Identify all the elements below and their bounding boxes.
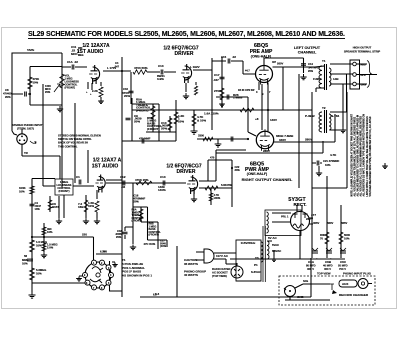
svg-text:1ST AUDIO: 1ST AUDIO [92, 164, 119, 170]
svg-text:700 V: 700 V [339, 267, 346, 271]
svg-text:6.3VAC: 6.3VAC [251, 270, 262, 274]
svg-text:(FRONT): (FRONT) [58, 189, 69, 193]
svg-text:AC SOCKET: AC SOCKET [212, 271, 228, 275]
svg-text:4700 50%: 4700 50% [134, 66, 148, 70]
svg-text:CHANNEL: CHANNEL [298, 51, 317, 55]
svg-text:(TOP VIEW): (TOP VIEW) [212, 274, 227, 278]
svg-text:(FRONT): (FRONT) [147, 127, 159, 131]
svg-text:2.0%: 2.0% [47, 246, 54, 250]
svg-text:THIS CONTROL: THIS CONTROL [58, 144, 78, 148]
svg-text:R4 60 OPS 5W: R4 60 OPS 5W [238, 89, 255, 92]
svg-text:10%: 10% [22, 262, 28, 266]
svg-text:C12: C12 [120, 175, 126, 179]
svg-text:35 WATTS: 35 WATTS [184, 262, 198, 266]
svg-text:1 MEG: 1 MEG [233, 96, 243, 100]
svg-text:5000: 5000 [344, 233, 350, 237]
svg-text:C15: C15 [221, 55, 227, 59]
svg-text:10%: 10% [47, 230, 53, 234]
svg-text:SIG: SIG [303, 279, 309, 283]
svg-text:267V: 267V [306, 217, 313, 221]
svg-text:TAPE: TAPE [27, 48, 34, 52]
svg-text:ALL RESISTORS 1/2 WATT, CARBON: ALL RESISTORS 1/2 WATT, CARBON TYPE UNLE… [363, 114, 366, 197]
svg-text:T2: T2 [322, 106, 326, 110]
svg-text:C1A: C1A [67, 60, 73, 64]
svg-text:6.3: 6.3 [155, 292, 160, 296]
svg-text:10%: 10% [178, 119, 184, 123]
svg-text:HIGH OUTPUT: HIGH OUTPUT [353, 46, 372, 50]
svg-text:10%: 10% [36, 244, 42, 248]
svg-text:SPEAKER TERMINAL STRIP: SPEAKER TERMINAL STRIP [344, 50, 380, 54]
svg-text:260V: 260V [277, 62, 283, 66]
svg-text:.047: .047 [114, 65, 120, 69]
svg-text:10%: 10% [325, 163, 331, 167]
svg-text:70: 70 [320, 237, 323, 241]
svg-text:T1: T1 [322, 59, 326, 63]
svg-text:STEREO PHONO INPUT: STEREO PHONO INPUT [12, 123, 43, 127]
svg-text:LEFT OUTPUT: LEFT OUTPUT [294, 46, 321, 50]
svg-text:220: 220 [82, 233, 87, 237]
svg-text:40 MFD: 40 MFD [323, 264, 333, 268]
svg-text:3300: 3300 [198, 134, 204, 138]
svg-text:20%: 20% [124, 94, 130, 98]
svg-text:5V AC: 5V AC [268, 236, 278, 240]
svg-text:4.7K: 4.7K [330, 153, 337, 157]
svg-text:467: 467 [272, 61, 277, 64]
svg-text:10%: 10% [36, 272, 42, 276]
svg-text:C13: C13 [160, 175, 166, 179]
svg-text:5.6K±5W: 5.6K±5W [221, 183, 233, 187]
svg-text:10%: 10% [33, 81, 39, 85]
svg-text:L 192V: L 192V [190, 65, 200, 69]
svg-text:DRIVER: DRIVER [177, 169, 196, 175]
svg-text:TR: TR [24, 151, 28, 155]
svg-text:5VAC: 5VAC [272, 243, 279, 247]
svg-text:BACK OF VOL REAR 2H: BACK OF VOL REAR 2H [58, 141, 88, 145]
svg-text:.02: .02 [121, 185, 126, 189]
svg-text:.02: .02 [74, 60, 78, 64]
svg-text:455V: 455V [313, 221, 319, 225]
svg-text:C1: C1 [76, 175, 80, 179]
svg-text:P-3952: P-3952 [313, 78, 321, 81]
svg-text:VOLTAGES MEASURED WITH VTVM, 2: VOLTAGES MEASURED WITH VTVM, 20K OHMS PE… [369, 116, 372, 196]
svg-text:470K 20%: 470K 20% [135, 178, 149, 182]
svg-text:PHONO INPUT PLUG: PHONO INPUT PLUG [343, 272, 371, 276]
svg-text:& 10%: & 10% [197, 119, 206, 123]
svg-text:16B: 16B [78, 205, 84, 209]
svg-text:R30: R30 [320, 233, 325, 237]
svg-text:450 V: 450 V [324, 267, 331, 271]
svg-text:T3: T3 [255, 256, 259, 260]
svg-text:C6B: C6B [325, 260, 332, 264]
svg-text:+: + [330, 257, 332, 261]
svg-text:6.3VAC: 6.3VAC [272, 249, 281, 253]
svg-text:80 MFD: 80 MFD [306, 264, 316, 268]
svg-text:2.2K: 2.2K [92, 89, 98, 93]
svg-text:NOTE: A (SAMPLE) VOLTAGES TAKE: NOTE: A (SAMPLE) VOLTAGES TAKEN AT SOCKE… [351, 113, 354, 196]
svg-text:4-8Ω: 4-8Ω [333, 78, 338, 81]
svg-text:C13: C13 [158, 64, 164, 68]
svg-text:+8: +8 [255, 117, 259, 121]
svg-text:.02: .02 [232, 55, 236, 59]
svg-text:10%: 10% [344, 237, 350, 241]
svg-text:LISTED WITH A 1 OHMS TRAP VALU: LISTED WITH A 1 OHMS TRAP VALUES, SEE CH… [366, 116, 369, 197]
svg-text:40 WATTS: 40 WATTS [184, 273, 198, 277]
svg-text:AUX: AUX [342, 282, 348, 286]
svg-text:10%: 10% [19, 190, 25, 194]
svg-text:PRI. 1: PRI. 1 [281, 215, 289, 219]
svg-text:(TERM. 1927): (TERM. 1927) [17, 127, 34, 131]
svg-text:RADIO RATED: RADIO RATED [212, 267, 231, 271]
svg-text:10%: 10% [35, 207, 41, 211]
svg-text:SWITCH ON THESE CNTRL: SWITCH ON THESE CNTRL [58, 137, 92, 141]
svg-text:AS SHOWN IN POS 1: AS SHOWN IN POS 1 [122, 274, 152, 278]
svg-text:MEG: MEG [78, 54, 84, 57]
svg-text:(FRONT): (FRONT) [132, 220, 142, 223]
svg-text:270K: 270K [214, 89, 222, 93]
svg-text:SL29 SCHEMATIC FOR MODELS SL25: SL29 SCHEMATIC FOR MODELS SL2505, ML2605… [28, 31, 345, 38]
svg-text:(FRONT): (FRONT) [65, 86, 76, 90]
svg-text:20 MFD: 20 MFD [338, 264, 348, 268]
svg-text:ALL VOLTAGES DC, U.O.S. VALUES: ALL VOLTAGES DC, U.O.S. VALUES MINIMUM A… [360, 115, 363, 196]
svg-text:20%: 20% [161, 126, 167, 130]
svg-text:470 MMF: 470 MMF [139, 137, 151, 141]
svg-text:(FRONT): (FRONT) [136, 108, 148, 112]
svg-text:100%: 100% [214, 196, 221, 200]
svg-text:TOP VIEW: TOP VIEW [317, 272, 331, 276]
svg-text:BLK: BLK [361, 74, 366, 77]
svg-text:DRIVER: DRIVER [175, 51, 194, 57]
svg-text:470 ±10%: 470 ±10% [144, 242, 156, 246]
svg-text:20%: 20% [5, 95, 11, 99]
svg-text:20%: 20% [308, 70, 314, 73]
svg-text:30%: 30% [235, 168, 241, 172]
svg-text:470: 470 [210, 156, 215, 160]
svg-text:C17: C17 [214, 73, 220, 77]
svg-text:360V: 360V [327, 221, 333, 225]
svg-text:C4: C4 [115, 61, 119, 65]
svg-text:117V AC: 117V AC [216, 254, 229, 258]
svg-text:(FRONT): (FRONT) [149, 234, 159, 237]
svg-text:RECORD CHANGER: RECORD CHANGER [339, 293, 369, 297]
svg-text:10%: 10% [88, 204, 94, 208]
svg-text:RECT.: RECT. [293, 202, 306, 207]
svg-text:STEREO GRIPS-NORMAL ELEVEN: STEREO GRIPS-NORMAL ELEVEN [58, 134, 101, 138]
svg-text:20%: 20% [134, 119, 140, 123]
svg-text:C21 470MMF: C21 470MMF [323, 159, 340, 163]
svg-text:450 V: 450 V [307, 267, 314, 271]
svg-text:6.3V: 6.3V [100, 250, 106, 254]
svg-text:P1: P1 [254, 263, 258, 267]
svg-text:RED: RED [361, 64, 366, 67]
svg-text:.047: .047 [213, 78, 219, 82]
svg-text:C14: C14 [308, 62, 313, 66]
svg-text:(10%: (10% [160, 244, 167, 248]
svg-text:20%: 20% [45, 90, 51, 94]
svg-text:C6C: C6C [340, 260, 347, 264]
svg-text:C6A: C6A [308, 260, 315, 264]
svg-text:ALL VOLTAGES +/- 10% TOLERANCE: ALL VOLTAGES +/- 10% TOLERANCE, LINE AT … [354, 116, 357, 196]
svg-text:RIGHT OUTPUT CHANNEL: RIGHT OUTPUT CHANNEL [242, 177, 293, 182]
svg-text:N-784: N-784 [331, 114, 340, 118]
svg-text:115V/60Hz: 115V/60Hz [241, 241, 256, 245]
svg-text:345V: 345V [279, 138, 286, 142]
svg-text:GND: GND [297, 295, 305, 299]
svg-text:20%: 20% [134, 199, 140, 203]
svg-text:B05T: B05T [52, 205, 60, 209]
svg-text:0.9%: 0.9% [157, 77, 164, 81]
svg-text:20%: 20% [116, 235, 122, 239]
svg-text:285V: 285V [263, 149, 270, 153]
svg-text:P-3952: P-3952 [305, 114, 315, 118]
svg-text:280V: 280V [305, 138, 312, 142]
svg-text:145V: 145V [270, 118, 277, 122]
svg-text:GRN: GRN [361, 84, 367, 87]
svg-text:(ONE-HALF): (ONE-HALF) [247, 172, 267, 176]
svg-text:44.7: 44.7 [245, 70, 250, 73]
svg-text:ALL VALUES MEASURED TO CHASSIS: ALL VALUES MEASURED TO CHASSIS GND, NO S… [357, 114, 360, 196]
svg-text:+: + [316, 257, 318, 261]
svg-text:1.6A 115%: 1.6A 115% [204, 112, 219, 116]
svg-text:140%: 140% [158, 188, 166, 192]
svg-text:365V: 365V [341, 221, 347, 225]
